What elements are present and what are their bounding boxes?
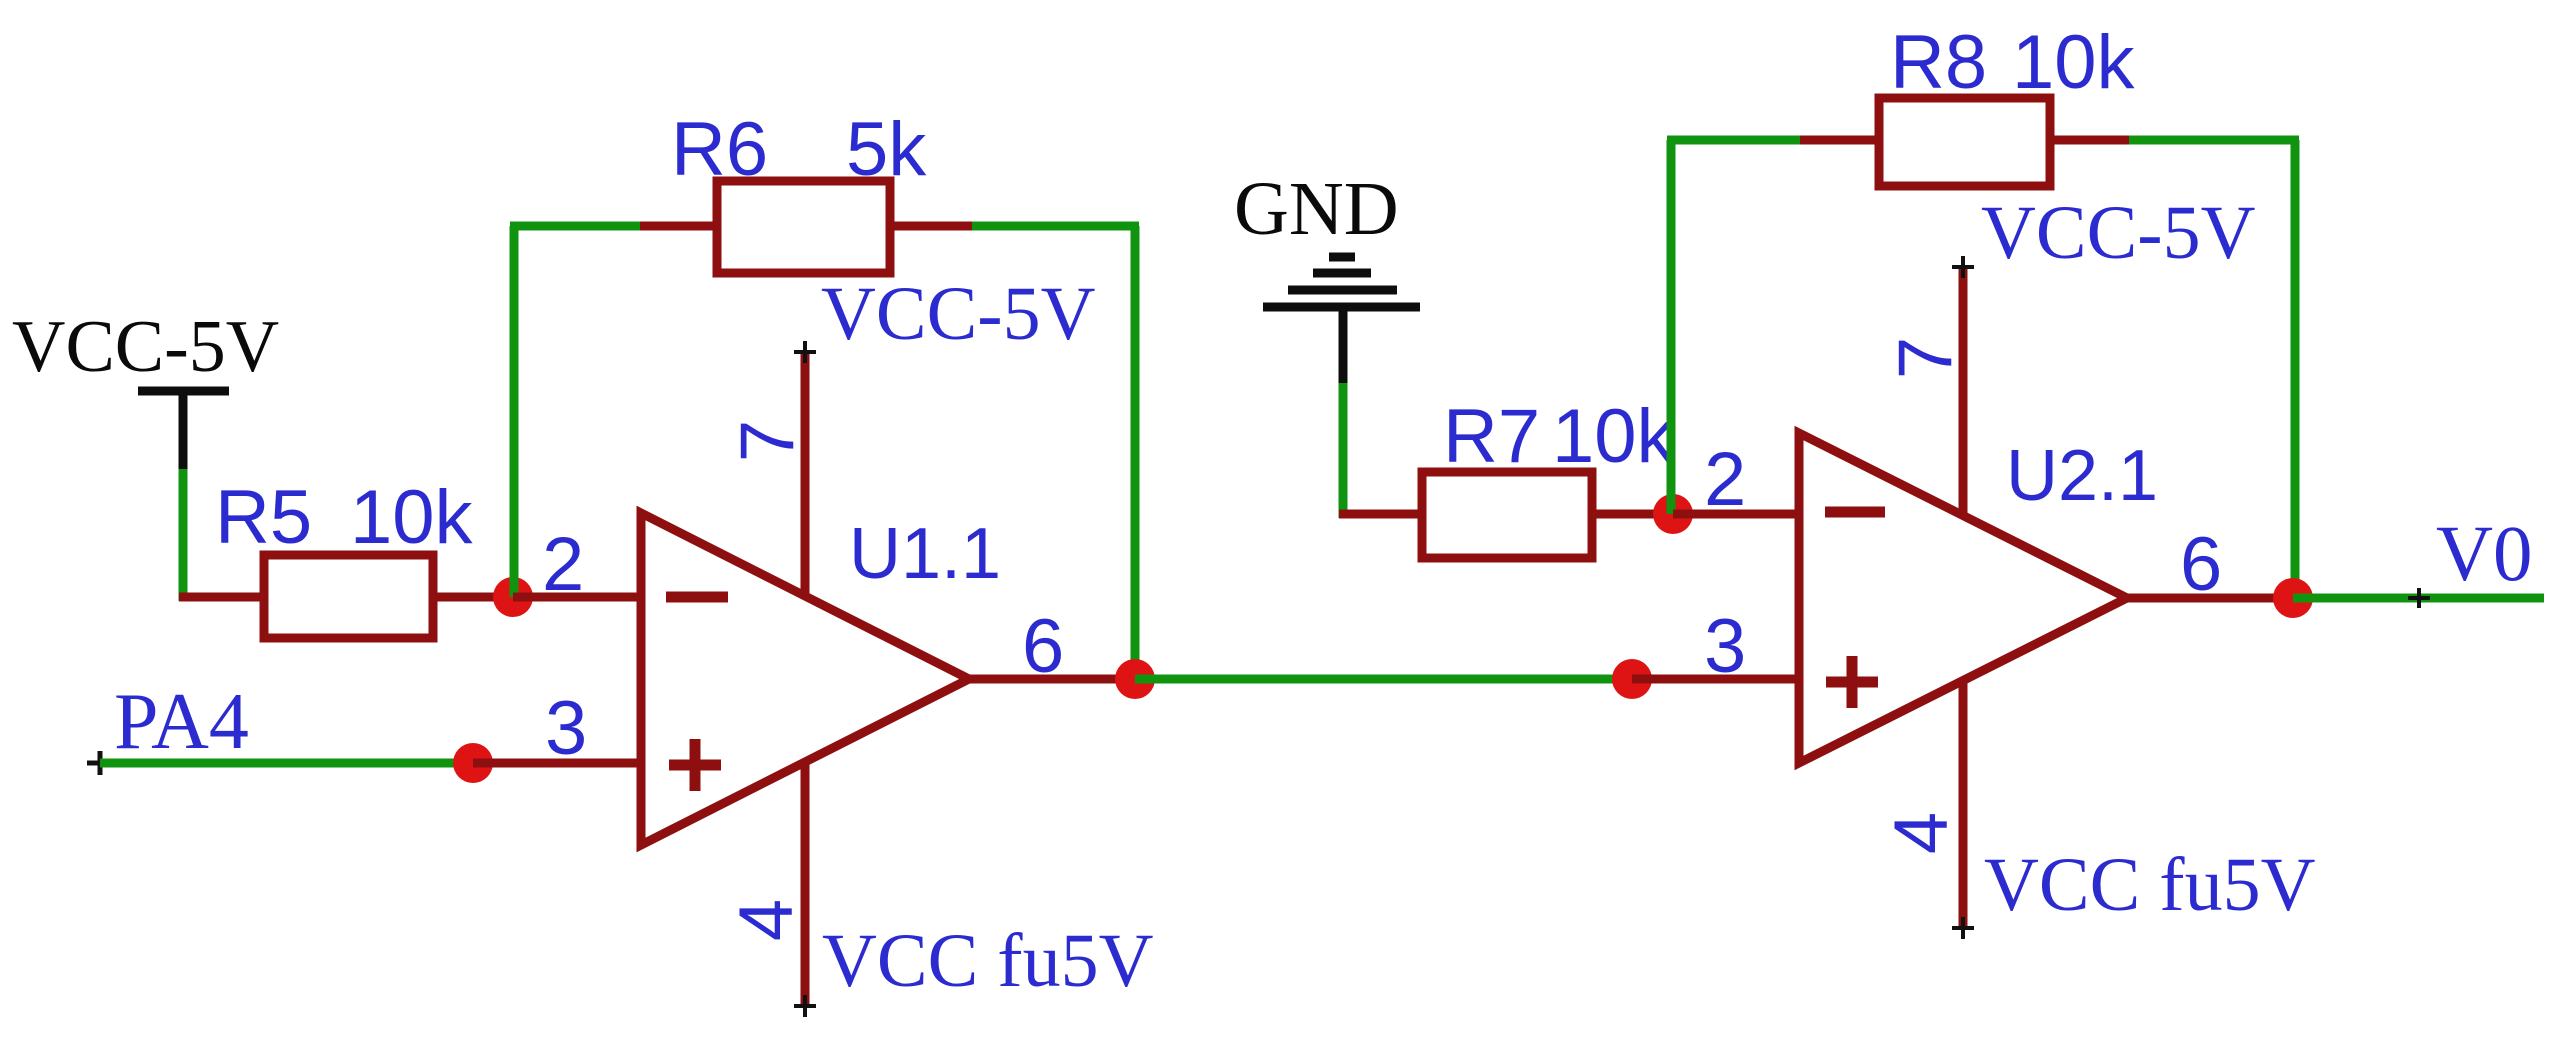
svg-text:4: 4	[1879, 812, 1964, 854]
pin label 7 (U1.1)	[725, 420, 810, 462]
pin 4 stem U1.1	[801, 762, 810, 1006]
svg-text:10k: 10k	[350, 475, 474, 560]
pin 4 end tick U1.1	[794, 995, 816, 1017]
wire	[1339, 383, 1348, 518]
svg-text:VCC fu5V: VCC fu5V	[1984, 843, 2316, 927]
svg-text:4: 4	[724, 899, 809, 941]
svg-text:U1.1: U1.1	[849, 514, 1001, 594]
resistor R6	[717, 181, 890, 273]
pin label 7 (U2.1)	[1883, 337, 1968, 379]
wire	[473, 759, 642, 768]
wire	[890, 222, 972, 231]
svg-text:6: 6	[1022, 604, 1064, 689]
svg-text:3: 3	[1704, 604, 1746, 689]
svg-text:V0: V0	[2436, 511, 2533, 598]
resistor R5	[264, 555, 433, 638]
wire	[179, 593, 264, 602]
op-amp U2.1	[1799, 433, 2127, 763]
node junction U1.1 pin 3	[453, 743, 493, 783]
svg-text:GND: GND	[1234, 167, 1399, 251]
svg-text:6: 6	[2180, 522, 2222, 607]
resistor R7	[1422, 472, 1592, 558]
svg-text:VCC-5V: VCC-5V	[12, 306, 279, 388]
svg-text:R8: R8	[1890, 20, 1987, 105]
pin 7 stem U2.1	[1959, 267, 1968, 516]
wire	[510, 226, 519, 597]
svg-text:R7: R7	[1443, 394, 1540, 479]
port tick V0	[2408, 588, 2430, 608]
wire	[433, 593, 516, 602]
pin 7 stem U1.1	[801, 352, 810, 596]
wire	[2129, 136, 2299, 145]
wire	[1592, 510, 1676, 519]
svg-text:7: 7	[1883, 337, 1968, 379]
svg-text:VCC fu5V: VCC fu5V	[822, 919, 1154, 1003]
wire	[1667, 140, 1676, 514]
svg-text:7: 7	[725, 420, 810, 462]
power symbol VCC-5V bar	[138, 391, 229, 471]
node junction U2.1 pin 3	[1612, 659, 1652, 699]
wire	[1339, 510, 1422, 519]
svg-text:PA4: PA4	[114, 678, 249, 766]
pin 7 end tick U2.1	[1952, 256, 1974, 278]
pin 4 stem U2.1	[1959, 682, 1968, 928]
wire	[1667, 136, 1800, 145]
wire	[179, 469, 188, 601]
wire	[640, 222, 717, 231]
wire	[1131, 226, 1140, 679]
pin label 4 (U1.1)	[724, 899, 809, 941]
ground symbol	[1263, 257, 1420, 385]
pin label 4 (U2.1)	[1879, 812, 1964, 854]
svg-text:10k: 10k	[2012, 20, 2136, 105]
node junction U2.1 pin 2	[1653, 494, 1693, 534]
node junction U1.1 pin 2	[493, 577, 533, 617]
svg-text:3: 3	[545, 686, 587, 771]
wire	[2050, 136, 2129, 145]
wire	[2291, 140, 2300, 598]
port tick PA4	[87, 751, 113, 775]
wire	[510, 222, 640, 231]
wire	[1800, 136, 1879, 145]
pin 7 end tick U1.1	[794, 341, 816, 363]
wire	[1673, 510, 1800, 519]
resistor R8	[1879, 98, 2050, 186]
wire	[1632, 675, 1800, 684]
wire	[100, 759, 473, 768]
svg-text:VCC-5V: VCC-5V	[821, 272, 1096, 356]
wire	[1135, 675, 1632, 684]
svg-text:U2.1: U2.1	[2006, 436, 2158, 516]
wire	[2123, 594, 2293, 603]
svg-text:2: 2	[1704, 437, 1746, 522]
wire	[513, 593, 642, 602]
pin 4 end tick U2.1	[1952, 917, 1974, 939]
svg-text:10k: 10k	[1552, 394, 1676, 479]
wire	[972, 222, 1139, 231]
node junction U1.1 output	[1115, 659, 1155, 699]
op-amp U1.1	[641, 513, 969, 845]
wire	[2293, 594, 2544, 603]
svg-text:2: 2	[542, 522, 584, 607]
svg-text:VCC-5V: VCC-5V	[1981, 191, 2256, 275]
wire	[965, 675, 1135, 684]
svg-text:R5: R5	[215, 475, 312, 560]
node junction U2.1 output	[2273, 578, 2313, 618]
